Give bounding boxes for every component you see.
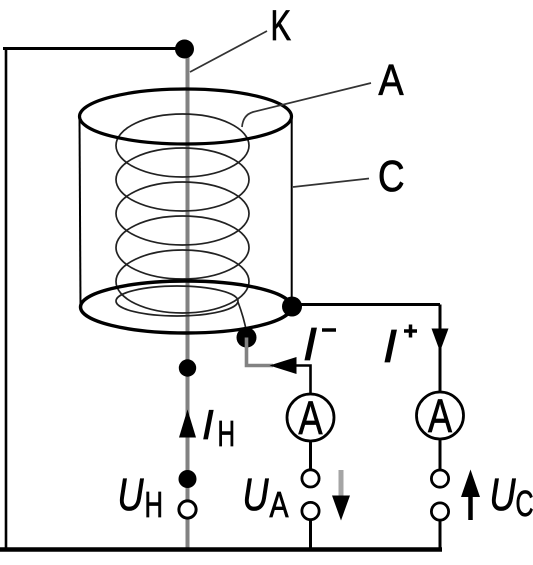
- svg-text:K: K: [271, 2, 292, 50]
- cylinder C: left side: [80, 117, 81, 307]
- label I- minus sign: [322, 328, 336, 332]
- coil A: helix bottom turn: [116, 286, 238, 316]
- arrow: current I- direction (left): [270, 357, 297, 374]
- wire: right branch vertical to ammeter: [439, 305, 442, 395]
- svg-text:U: U: [490, 469, 516, 520]
- svg-text:H: H: [218, 413, 236, 454]
- svg-text:A: A: [299, 391, 323, 444]
- svg-text:H: H: [145, 484, 164, 525]
- arrow: voltage U_C direction (up): [468, 496, 473, 520]
- svg-text:U: U: [118, 469, 144, 520]
- terminal: heater socket (open circle): [179, 501, 196, 518]
- wire: bottom rail: [0, 547, 442, 552]
- wire: top lead from left rail to node K: [3, 47, 186, 50]
- ammeter A (cylinder current): [417, 392, 464, 439]
- wire: cathode axis lead below terminal: [186, 518, 190, 550]
- svg-text:I: I: [303, 318, 317, 370]
- arrow: heater current I_H (up): [179, 410, 196, 438]
- cylinder C: top rim ellipse: [80, 89, 292, 144]
- leader line to label A: [242, 83, 371, 127]
- coil A: helix turn 4: [116, 216, 249, 279]
- svg-text:U: U: [243, 469, 269, 520]
- arrow: voltage U_A direction (down, gray shaft): [339, 470, 344, 497]
- wire: right ammeter to terminal: [439, 439, 442, 471]
- node: junction dot cylinder to right branch: [282, 297, 302, 317]
- svg-text:C: C: [378, 153, 405, 201]
- svg-text:I: I: [202, 401, 214, 448]
- node: junction dot on cathode axis below cylinder: [179, 359, 196, 376]
- coil A: bottom end lead to node: [238, 302, 247, 332]
- terminal: right upper socket: [431, 470, 448, 487]
- node: junction dot above heater terminal: [179, 470, 197, 488]
- terminal: left lower socket: [302, 502, 319, 519]
- arrow: current I+ direction (down): [432, 329, 449, 352]
- svg-text:C: C: [516, 483, 533, 524]
- wire: right terminal to bottom rail: [439, 520, 442, 550]
- wire: left rail: [5, 47, 8, 551]
- coil A: helix turn 5: [116, 250, 249, 313]
- wire: anode branch to left ammeter: [295, 366, 311, 395]
- ammeter A (anode current): [287, 394, 334, 441]
- leader line to label K: [190, 31, 267, 72]
- coil A: heater/anode helix turn 1: [116, 114, 249, 177]
- svg-text:A: A: [379, 57, 404, 105]
- node: junction dot coil end (anode lead): [237, 328, 257, 348]
- cylinder C: right side: [291, 117, 293, 307]
- wire: cathode axis lead K (gray vertical): [186, 49, 190, 502]
- wire: left ammeter to terminal: [309, 441, 312, 471]
- leader line to label C: [293, 179, 369, 188]
- svg-text:A: A: [428, 389, 452, 442]
- label I+ plus sign: [404, 329, 417, 333]
- node: junction dot at top of cathode (K): [175, 40, 194, 59]
- svg-text:A: A: [270, 484, 289, 525]
- terminal: right lower socket: [431, 503, 448, 520]
- coil A: helix turn 3: [116, 182, 249, 245]
- coil A: helix turn 2: [116, 148, 249, 211]
- wire: anode branch gray stub from coil node: [247, 338, 274, 366]
- cylinder C: bottom rim ellipse: [81, 281, 292, 333]
- wire: left terminal to bottom rail: [309, 520, 312, 551]
- terminal: left upper socket: [302, 470, 319, 487]
- wire: right branch horizontal from cylinder node: [292, 303, 440, 306]
- svg-text:I: I: [383, 320, 397, 372]
